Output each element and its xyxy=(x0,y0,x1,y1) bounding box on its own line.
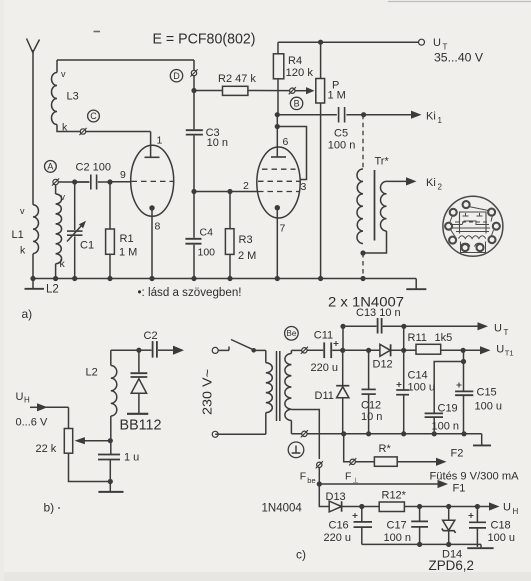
junction bus L2a xyxy=(53,276,58,281)
svg-text:230 V~: 230 V~ xyxy=(201,369,215,415)
svg-text:10 n: 10 n xyxy=(361,411,382,423)
terminal mains top xyxy=(212,347,218,353)
svg-text:220 u: 220 u xyxy=(324,532,352,544)
svg-text:C19: C19 xyxy=(438,403,458,415)
wire D14-C18 xyxy=(449,506,478,508)
wire sec top xyxy=(291,349,301,351)
svg-text:1 M: 1 M xyxy=(119,247,137,259)
wire UH down xyxy=(68,407,70,428)
svg-text:3: 3 xyxy=(301,181,307,193)
svg-text:D11: D11 xyxy=(315,390,334,402)
svg-text:R1: R1 xyxy=(120,233,134,245)
resistor R3 xyxy=(229,192,231,229)
wire L2b bottom xyxy=(110,416,112,454)
junction bus R1 xyxy=(107,276,112,281)
svg-text:C2: C2 xyxy=(144,330,158,342)
junction P top xyxy=(318,40,323,45)
wire L3 bottom to node C xyxy=(57,125,80,132)
wire bus a xyxy=(33,278,416,280)
svg-text:F: F xyxy=(300,471,306,483)
svg-text:E = PCF80(802): E = PCF80(802) xyxy=(153,32,256,48)
wire C1 top tap xyxy=(75,181,90,183)
svg-text:C14: C14 xyxy=(408,370,428,382)
wire cathode V1a to bus xyxy=(151,208,153,279)
terminal Fbe xyxy=(317,462,322,467)
wire to C2b xyxy=(141,349,152,351)
varactor BB112 xyxy=(138,350,140,372)
tube V1b grid2 dashed xyxy=(258,191,300,193)
junction Tr bottom xyxy=(360,250,365,255)
svg-text:•: lásd a szövegben!: •: lásd a szövegben! xyxy=(138,287,242,299)
junction bus c C19 xyxy=(432,431,437,436)
scan dash artifact xyxy=(94,31,101,33)
node Be label xyxy=(285,327,299,341)
svg-text:be: be xyxy=(307,476,315,485)
junction bus c D11 xyxy=(341,431,346,436)
terminal mains bottom xyxy=(212,431,218,437)
svg-text:C17: C17 xyxy=(387,520,407,532)
label C11 plus xyxy=(334,341,339,346)
capacitor C3 xyxy=(186,129,203,131)
svg-text:100 u: 100 u xyxy=(488,532,516,544)
wire UT rail xyxy=(278,41,419,43)
wire C2 to pin9 xyxy=(98,181,110,183)
junction C15 top xyxy=(461,348,466,353)
wire cathode V1b to bus xyxy=(276,208,278,279)
junction D11 top xyxy=(340,348,345,353)
capacitor C15 xyxy=(455,390,473,392)
wire bus a to ground xyxy=(415,279,417,290)
wire D12 right xyxy=(391,349,416,351)
svg-text:C2 100: C2 100 xyxy=(76,162,111,174)
potentiometer 22k xyxy=(64,429,72,454)
terminal UT xyxy=(419,39,425,45)
terminal Be xyxy=(302,348,307,353)
svg-text:9: 9 xyxy=(120,169,126,181)
svg-text:100 u: 100 u xyxy=(408,382,436,394)
variable capacitor C1 xyxy=(74,182,76,230)
svg-text:0...6 V: 0...6 V xyxy=(16,417,48,429)
svg-text:c): c) xyxy=(296,548,306,562)
svg-text:F1: F1 xyxy=(453,483,466,495)
wire pin9 xyxy=(110,181,132,183)
junction bus c C15 xyxy=(461,431,466,436)
svg-text:b): b) xyxy=(44,501,55,515)
wire F1 to D13 xyxy=(319,484,329,507)
svg-text:220 u: 220 u xyxy=(311,362,339,374)
inductor L3 xyxy=(52,73,57,125)
svg-text:R11: R11 xyxy=(408,332,427,344)
wire F2 mid xyxy=(356,461,375,463)
capacitor C12 xyxy=(368,350,370,389)
svg-text:C1: C1 xyxy=(80,240,94,252)
wire Fbe down xyxy=(318,468,320,484)
svg-text:6: 6 xyxy=(283,136,289,148)
junction bus P xyxy=(318,276,323,281)
svg-text:k: k xyxy=(60,258,66,270)
tube V1b grid1 dashed xyxy=(262,168,296,170)
junction bus Tr xyxy=(360,276,365,281)
diode D12 xyxy=(380,344,390,356)
svg-text:C18: C18 xyxy=(491,520,511,532)
svg-text:35...40 V: 35...40 V xyxy=(434,51,483,65)
svg-text:Ki: Ki xyxy=(426,111,436,123)
tube V1a grid dashed xyxy=(132,180,174,182)
svg-text:Tr*: Tr* xyxy=(375,156,390,168)
svg-text:100 n: 100 n xyxy=(328,140,356,152)
diode D11 xyxy=(342,350,344,385)
junction C14 top xyxy=(401,348,406,353)
tube V1a cathode xyxy=(149,205,154,210)
svg-text:v: v xyxy=(61,192,66,202)
transformer mains core xyxy=(276,351,278,421)
svg-text:A: A xyxy=(47,162,53,172)
svg-text:L2: L2 xyxy=(46,284,59,296)
pot wiper arrow xyxy=(84,440,110,442)
capacitor C17 xyxy=(419,507,421,522)
junction C1 top xyxy=(72,179,77,184)
resistor R11 xyxy=(416,344,441,354)
inductor L2b xyxy=(111,366,117,417)
arrow Ki1 xyxy=(364,114,411,116)
label C18 plus xyxy=(469,513,474,518)
wire C15 branch xyxy=(463,350,465,391)
svg-text:T: T xyxy=(504,328,509,337)
junction C2-R1-pin9 xyxy=(107,179,112,184)
svg-text:ZPD6,2: ZPD6,2 xyxy=(429,558,475,573)
svg-text:1k5: 1k5 xyxy=(435,332,453,344)
wire C5 right xyxy=(346,114,363,116)
svg-text:U: U xyxy=(16,391,24,403)
svg-text:C15: C15 xyxy=(477,387,497,399)
transformer Tr secondary xyxy=(381,181,387,231)
svg-text:U: U xyxy=(494,323,502,335)
node C terminal xyxy=(80,129,85,134)
wire Tr secondary bottom xyxy=(363,231,387,253)
svg-text:a): a) xyxy=(22,307,33,321)
capacitor C2 xyxy=(90,175,92,190)
label C15 plus xyxy=(457,383,462,388)
wire 1u bottom xyxy=(109,460,111,482)
junction g2 loop xyxy=(275,124,280,129)
scan line top right xyxy=(388,1,531,3)
node A label xyxy=(45,161,57,173)
node D terminal xyxy=(191,70,196,75)
transformer Tr primary dashed top xyxy=(362,115,364,169)
junction bus ant xyxy=(30,276,35,281)
junction D-R2-C3 xyxy=(191,88,196,93)
junction C13 right xyxy=(401,324,406,329)
junction BB112 top xyxy=(136,348,141,353)
tube V1b cathode xyxy=(275,205,280,210)
inductor L2a xyxy=(56,194,62,264)
wire g2 loop xyxy=(277,127,306,180)
capacitor C18 xyxy=(476,507,478,523)
terminal Fperp xyxy=(350,459,355,464)
svg-text:F: F xyxy=(345,471,351,483)
wire L2b top xyxy=(111,350,137,365)
svg-text:L3: L3 xyxy=(67,91,79,103)
wire C13 rail right xyxy=(383,325,404,327)
svg-text:100 u: 100 u xyxy=(475,401,503,413)
svg-text:U: U xyxy=(503,502,511,514)
wire sec bottom xyxy=(291,420,301,433)
junction C16 top xyxy=(359,504,364,509)
zener D14 xyxy=(448,507,450,521)
junction D14 top xyxy=(446,504,451,509)
svg-text:k: k xyxy=(20,245,26,257)
arrow UT c xyxy=(404,325,478,327)
arrow F2 xyxy=(397,461,436,463)
wire bus c xyxy=(307,433,482,435)
node earth label xyxy=(288,442,304,458)
arrow into P wiper xyxy=(295,90,306,92)
svg-text:1: 1 xyxy=(157,135,163,147)
tube V1a envelope xyxy=(131,145,174,216)
ground left xyxy=(32,279,34,289)
arrow F1 xyxy=(319,483,437,485)
svg-text:H: H xyxy=(24,396,30,405)
arrow UT1 xyxy=(463,349,480,351)
svg-text:R2 47 k: R2 47 k xyxy=(218,73,256,85)
wire C5 row left xyxy=(277,114,337,116)
svg-text:1: 1 xyxy=(438,116,443,125)
wire C13 rail left xyxy=(343,325,377,327)
svg-text:C13 10 n: C13 10 n xyxy=(356,307,401,319)
wire R2 right xyxy=(248,90,290,92)
svg-text:22 k: 22 k xyxy=(36,443,57,455)
tube V1b envelope xyxy=(257,147,300,218)
svg-text:v: v xyxy=(20,206,25,216)
svg-text:C5: C5 xyxy=(334,128,348,140)
junction C17 top xyxy=(417,504,422,509)
wire C4 xyxy=(193,192,195,279)
wire sec tap xyxy=(291,410,319,460)
svg-text:C16: C16 xyxy=(329,520,349,532)
svg-text:R3: R3 xyxy=(239,234,253,246)
switch xyxy=(218,349,229,351)
wire pin2 row xyxy=(194,191,258,193)
capacitor 1u xyxy=(98,454,120,456)
junction bus c2 D14 xyxy=(446,542,451,547)
junction b bottom xyxy=(108,479,113,484)
capacitor C5 xyxy=(338,107,340,123)
node A terminal xyxy=(53,179,58,184)
terminal sec bottom xyxy=(302,431,307,436)
wire R12 right xyxy=(404,506,419,508)
junction bus c C14 xyxy=(401,431,406,436)
wire F2 drop xyxy=(344,434,350,462)
svg-text:100: 100 xyxy=(198,247,216,259)
arrow C2b out xyxy=(158,349,173,351)
ground a xyxy=(406,288,426,290)
label C16 plus xyxy=(353,513,358,518)
svg-text:C11: C11 xyxy=(314,330,333,342)
junction Ki1-Tr xyxy=(361,112,366,117)
svg-text:120 k: 120 k xyxy=(286,67,314,79)
transformer Tr core xyxy=(374,170,376,241)
svg-text:BB112: BB112 xyxy=(120,417,162,433)
resistor R4 xyxy=(277,42,279,54)
junction F1 xyxy=(317,481,322,486)
svg-text:2: 2 xyxy=(438,183,443,192)
ground c right xyxy=(481,434,483,445)
resistor R1 xyxy=(109,182,111,229)
svg-text:D12: D12 xyxy=(373,359,393,371)
tube V1a anode plate xyxy=(145,156,160,158)
transformer mains primary xyxy=(265,350,267,362)
wire pin6 anode xyxy=(276,115,278,157)
svg-text:v: v xyxy=(61,69,66,79)
junction bus c C12 xyxy=(366,431,371,436)
transformer Tr primary dashed bottom xyxy=(362,253,364,279)
wire D13-R12 xyxy=(362,506,379,508)
svg-text:7: 7 xyxy=(280,223,286,235)
junction C12 top xyxy=(366,348,371,353)
svg-text:R12*: R12* xyxy=(382,490,407,502)
wire C19 branch xyxy=(434,362,463,414)
svg-text:C12: C12 xyxy=(361,400,381,412)
svg-text:L2: L2 xyxy=(86,367,98,379)
capacitor C2b xyxy=(152,341,154,358)
wire R2 left xyxy=(194,90,222,92)
svg-text:C4: C4 xyxy=(200,227,214,239)
wire C13 left leg xyxy=(342,326,344,350)
svg-text:T1: T1 xyxy=(505,349,514,358)
wire node C to pin1 xyxy=(86,132,151,158)
tube socket pinout xyxy=(443,196,503,256)
transformer Tr primary xyxy=(357,169,363,244)
wire R11 right xyxy=(441,349,464,351)
arrow Ki2 xyxy=(387,180,407,182)
wire D12 left xyxy=(343,349,380,351)
svg-text:2 M: 2 M xyxy=(238,250,256,262)
wire L2a to bus xyxy=(55,264,57,279)
junction R3 top xyxy=(227,189,232,194)
svg-text:F2: F2 xyxy=(451,448,464,460)
svg-text:10 n: 10 n xyxy=(207,137,228,149)
svg-text:H: H xyxy=(513,507,519,516)
junction bus R3 xyxy=(227,276,232,281)
svg-text:B: B xyxy=(294,99,300,109)
svg-text:D13: D13 xyxy=(326,491,346,503)
wire C3 xyxy=(193,91,195,192)
capacitor C14 xyxy=(403,350,405,390)
resistor R12 xyxy=(379,502,404,512)
wire C17-D14 xyxy=(420,506,449,508)
capacitor C13 xyxy=(377,318,379,334)
svg-text:100 n: 100 n xyxy=(432,421,460,433)
ground c bottom xyxy=(480,544,482,547)
capacitor C16 xyxy=(361,507,363,522)
label C14 plus xyxy=(397,382,402,387)
junction bus c2 C17 xyxy=(417,542,422,547)
arrow UH in xyxy=(30,406,37,408)
wire pot bottom xyxy=(69,453,111,481)
resistor R2 xyxy=(223,86,248,95)
svg-text:R4: R4 xyxy=(288,55,302,67)
svg-text:L1: L1 xyxy=(12,229,24,241)
svg-text:2: 2 xyxy=(243,180,249,192)
junction C13 left xyxy=(340,324,345,329)
tube V1b grid3 dashed xyxy=(258,180,300,182)
wire D vertical xyxy=(193,60,195,91)
inductor L1 xyxy=(33,205,39,254)
svg-text:8: 8 xyxy=(155,221,161,233)
capacitor C11 xyxy=(307,349,323,351)
svg-text:1 M: 1 M xyxy=(328,90,346,102)
terminal B wiper xyxy=(290,88,295,93)
wire bus c2 xyxy=(362,543,481,545)
junction bus C1 xyxy=(72,276,77,281)
svg-text:U: U xyxy=(433,37,441,49)
inductor L2a top stub xyxy=(55,185,57,194)
svg-text:1N4004: 1N4004 xyxy=(262,503,303,515)
capacitor C4 xyxy=(185,238,201,240)
antenna xyxy=(27,39,40,54)
arrow UH out xyxy=(477,506,489,508)
ground b xyxy=(109,482,111,492)
svg-text:1 u: 1 u xyxy=(124,452,139,464)
svg-text:Fütés 9 V/300 mA: Fütés 9 V/300 mA xyxy=(430,471,520,483)
node C label xyxy=(88,110,100,122)
transformer mains secondary xyxy=(285,354,292,421)
junction C18 top xyxy=(475,504,480,509)
junction anode-C5 xyxy=(275,112,280,117)
junction bus k2 xyxy=(275,276,280,281)
junction C19 branch xyxy=(461,359,466,364)
resistor Rstar xyxy=(374,457,397,466)
wire L3 top rail xyxy=(57,60,194,73)
junction bus C4 xyxy=(191,276,196,281)
diode D13 xyxy=(329,501,341,512)
junction wiper xyxy=(108,438,113,443)
capacitor C19 xyxy=(425,412,443,414)
wire mains bottom xyxy=(215,433,266,435)
potentiometer P xyxy=(320,42,322,78)
svg-text:R*: R* xyxy=(379,443,392,455)
junction bus k1 xyxy=(149,276,154,281)
svg-text:Be: Be xyxy=(287,329,297,338)
svg-text:100 n: 100 n xyxy=(384,532,412,544)
svg-text:D: D xyxy=(173,71,180,81)
tube V1b anode plate xyxy=(271,156,286,158)
node D label xyxy=(170,70,182,82)
node B label xyxy=(290,97,302,109)
wire C13 right leg xyxy=(403,326,405,350)
svg-text:U: U xyxy=(496,344,504,356)
wire A to C2 xyxy=(58,181,89,183)
svg-text:Ki: Ki xyxy=(426,177,436,189)
junction C3-C4-pin2 xyxy=(191,189,196,194)
svg-text:C: C xyxy=(90,111,97,121)
